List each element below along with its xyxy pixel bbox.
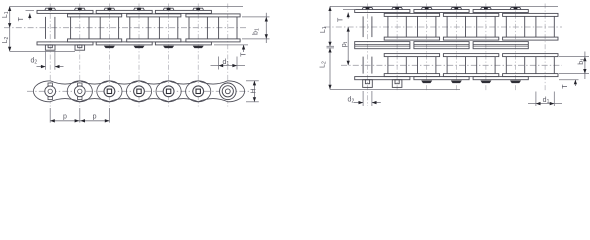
strand 1 rollers (plan interior): [387, 16, 389, 37]
dimension H (plate height): [246, 80, 259, 82]
outer link plate 0-1 (side view): [33, 81, 92, 102]
pin bottom extension line: [330, 88, 460, 90]
pin head rivet at pin 3: [134, 8, 145, 10]
rivet washer at pin 3: [451, 81, 462, 84]
pin 1 (side view): [78, 83, 82, 86]
rivet washer at pin 5: [193, 46, 204, 48]
connecting-link clip at pin 0: [45, 45, 55, 50]
pin 4 centerline: [168, 4, 170, 107]
svg-text:T: T: [562, 84, 569, 89]
pin 1 centerline: [79, 4, 81, 107]
inner link plate 3-4 (side view): [126, 81, 181, 102]
pin 0 (side view): [48, 83, 52, 86]
svg-text:L2: L2: [319, 61, 327, 68]
rollers / bushings (plan interior): [70, 17, 72, 39]
svg-text:b1: b1: [578, 58, 586, 65]
outer link plates (top row): [37, 10, 93, 13]
pin-head top extension line: [10, 5, 243, 7]
dimension L1 (duplex): [329, 6, 331, 46]
outer link plate 2-3 (side view): [97, 81, 152, 102]
pin 5 centerline: [197, 4, 199, 107]
connecting-link clip at pin 1: [392, 80, 402, 88]
pin 3 centerline: [455, 4, 457, 93]
pin head rivet at pin 0: [362, 8, 373, 10]
connecting-link clip at pin 1: [75, 45, 85, 50]
dimension L2: [9, 28, 11, 52]
pin head rivet at pin 4: [481, 8, 492, 10]
inner link plates strand2 upper: [384, 54, 439, 57]
pin head rivet at pin 0: [45, 8, 56, 10]
strand 2 centerline: [341, 64, 562, 66]
inner link plates strand1 lower: [384, 37, 439, 40]
pin 2 centerline: [426, 4, 428, 93]
svg-text:L1: L1: [320, 26, 328, 33]
inner link plate 1-2 (side view): [67, 81, 122, 102]
inner link plates strand2 lower: [384, 74, 439, 77]
dimension L1: [9, 6, 11, 27]
rivet washer at pin 4: [480, 81, 491, 84]
bushing 2 (side view): [104, 86, 115, 97]
outer link plate 4-5 (side view): [156, 81, 211, 102]
dimension b1 (duplex inner width): [559, 56, 589, 58]
pin 3 centerline: [138, 4, 140, 107]
pin head rivet at pin 5: [510, 8, 521, 10]
bushing 3 (side view): [134, 86, 145, 97]
dimension d1 (roller diameter): [218, 57, 220, 70]
svg-text:T: T: [337, 17, 344, 22]
svg-text:T: T: [241, 52, 248, 57]
rivet washer at pin 4: [163, 46, 174, 48]
pin head rivet at pin 2: [421, 8, 432, 10]
dimension d2 (pin diameter): [45, 52, 47, 70]
dimension L2 (duplex): [329, 48, 331, 90]
inner link plates strand1 upper: [384, 13, 439, 16]
dimension T (plate thickness, top left): [26, 9, 35, 11]
inner link plate 5-6 (side view): [186, 81, 245, 102]
pin 6 centerline: [544, 4, 546, 93]
pin head rivet at pin 5: [193, 8, 204, 10]
pin 0 centerline: [367, 4, 369, 107]
dimension T (outer plate right, duplex): [559, 79, 579, 81]
outer link plates (top row): [355, 10, 410, 13]
strand 1 centerline: [324, 26, 562, 28]
svg-text:L2: L2: [2, 36, 10, 43]
svg-text:p: p: [63, 114, 67, 121]
pin head rivet at pin 4: [163, 8, 174, 10]
dimension T (inner plate, right): [214, 44, 248, 46]
pin head rivet at pin 1: [74, 8, 85, 10]
chain centerline: [4, 27, 248, 29]
svg-text:d1: d1: [222, 59, 229, 67]
pin head rivet at pin 2: [104, 8, 115, 10]
pin 5 centerline: [515, 4, 517, 93]
pin-head top extension line: [330, 5, 558, 7]
pin 4 centerline: [485, 4, 487, 93]
pin bottom extension line: [10, 50, 75, 52]
pin 6 centerline: [227, 4, 229, 107]
svg-text:L1: L1: [2, 11, 10, 18]
dimension T (outer plate, duplex): [343, 9, 356, 11]
svg-text:T: T: [18, 16, 25, 21]
pin 2 centerline: [108, 4, 110, 107]
rivet washer at pin 5: [510, 81, 521, 84]
svg-text:b1: b1: [253, 28, 261, 35]
svg-text:pt: pt: [341, 41, 349, 47]
svg-text:d2: d2: [348, 96, 355, 104]
pin head rivet at pin 1: [392, 8, 403, 10]
bushing 4 (side view): [163, 86, 174, 97]
inner link plates (upper row): [68, 14, 122, 17]
svg-text:d1: d1: [543, 97, 550, 105]
side view centerline: [27, 90, 251, 92]
end roller (side view): [220, 83, 237, 100]
svg-text:H: H: [251, 88, 258, 93]
dimension pt (transverse pitch): [347, 27, 349, 65]
pin 1 centerline: [396, 4, 398, 93]
outer link plates (bottom row): [37, 42, 93, 45]
connecting-link clip at pin 0: [363, 80, 373, 88]
dimension p (pitch): [49, 108, 51, 123]
inner link plates (lower row): [68, 39, 122, 42]
rivet washer at pin 3: [134, 46, 145, 48]
strand 2 rollers (plan interior): [387, 57, 389, 74]
rivet washer at pin 2: [104, 46, 115, 48]
intermediate plates: [355, 42, 410, 49]
pin head rivet at pin 3: [451, 8, 462, 10]
pin 0 centerline: [49, 4, 51, 107]
svg-text:d2: d2: [30, 57, 37, 65]
dimension b1 (inner width): [242, 16, 270, 18]
bushing 5 (side view): [193, 86, 204, 97]
dimension d2 (duplex pin diameter): [362, 91, 364, 106]
dimension d1 (duplex roller diameter): [535, 92, 537, 107]
svg-text:p: p: [93, 114, 97, 121]
rivet washer at pin 2: [421, 81, 432, 84]
outer link plates (bottom row): [355, 77, 410, 80]
